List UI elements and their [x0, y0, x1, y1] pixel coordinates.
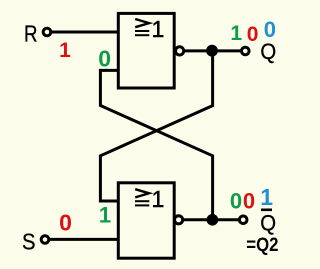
svg-text:0: 0: [243, 188, 255, 213]
svg-text:0: 0: [247, 23, 259, 46]
svg-text:1: 1: [99, 202, 111, 227]
svg-text:S: S: [22, 229, 36, 255]
junction node top (Q): [206, 45, 218, 57]
wire S to U2 input 2: [50, 238, 118, 241]
output terminal Q: [242, 47, 250, 55]
U1 output inversion bubble: [176, 47, 184, 55]
U2 output inversion bubble: [175, 216, 183, 224]
svg-text:1: 1: [152, 186, 165, 212]
wire feedback: bottom junction up-cross to U1 input 2: [100, 70, 212, 219]
NOR gate U2 (bottom) body: [118, 183, 174, 258]
input terminal S: [41, 236, 49, 244]
svg-text:0: 0: [59, 210, 72, 236]
U1 symbol equal bar 2: [135, 34, 149, 36]
junction node bottom (Qbar): [207, 214, 219, 226]
wire R to U1 input 1: [52, 31, 118, 34]
U2 symbol equal bar 1: [135, 200, 149, 202]
output terminal Qbar: [239, 216, 247, 224]
svg-text:0: 0: [230, 188, 242, 213]
wire U1 output to Q terminal: [185, 49, 241, 52]
input terminal R: [43, 28, 51, 36]
svg-text:Q: Q: [260, 210, 276, 235]
output label Qbar overbar: [261, 209, 272, 212]
svg-text:1: 1: [152, 16, 165, 42]
wire U2 output to Qbar terminal: [184, 218, 239, 221]
svg-text:0: 0: [98, 46, 111, 72]
U2 symbol equal bar 2: [135, 204, 149, 206]
wire feedback: top junction down-cross to U2 input 1: [100, 51, 212, 201]
svg-text:Q: Q: [260, 39, 276, 64]
svg-text:R: R: [24, 21, 38, 47]
U1 symbol &#8807;1 : greater-than stroke: [135, 19, 149, 27]
svg-text:0: 0: [264, 17, 276, 42]
U1 symbol equal bar 1: [135, 30, 149, 32]
NOR gate U1 (top) body: [118, 13, 174, 88]
svg-text:1: 1: [59, 39, 71, 62]
svg-text:1: 1: [230, 22, 242, 45]
svg-text:1: 1: [260, 184, 273, 210]
svg-text:=Q2: =Q2: [246, 235, 278, 256]
U2 symbol &#8807;1 : greater-than stroke: [135, 189, 149, 197]
